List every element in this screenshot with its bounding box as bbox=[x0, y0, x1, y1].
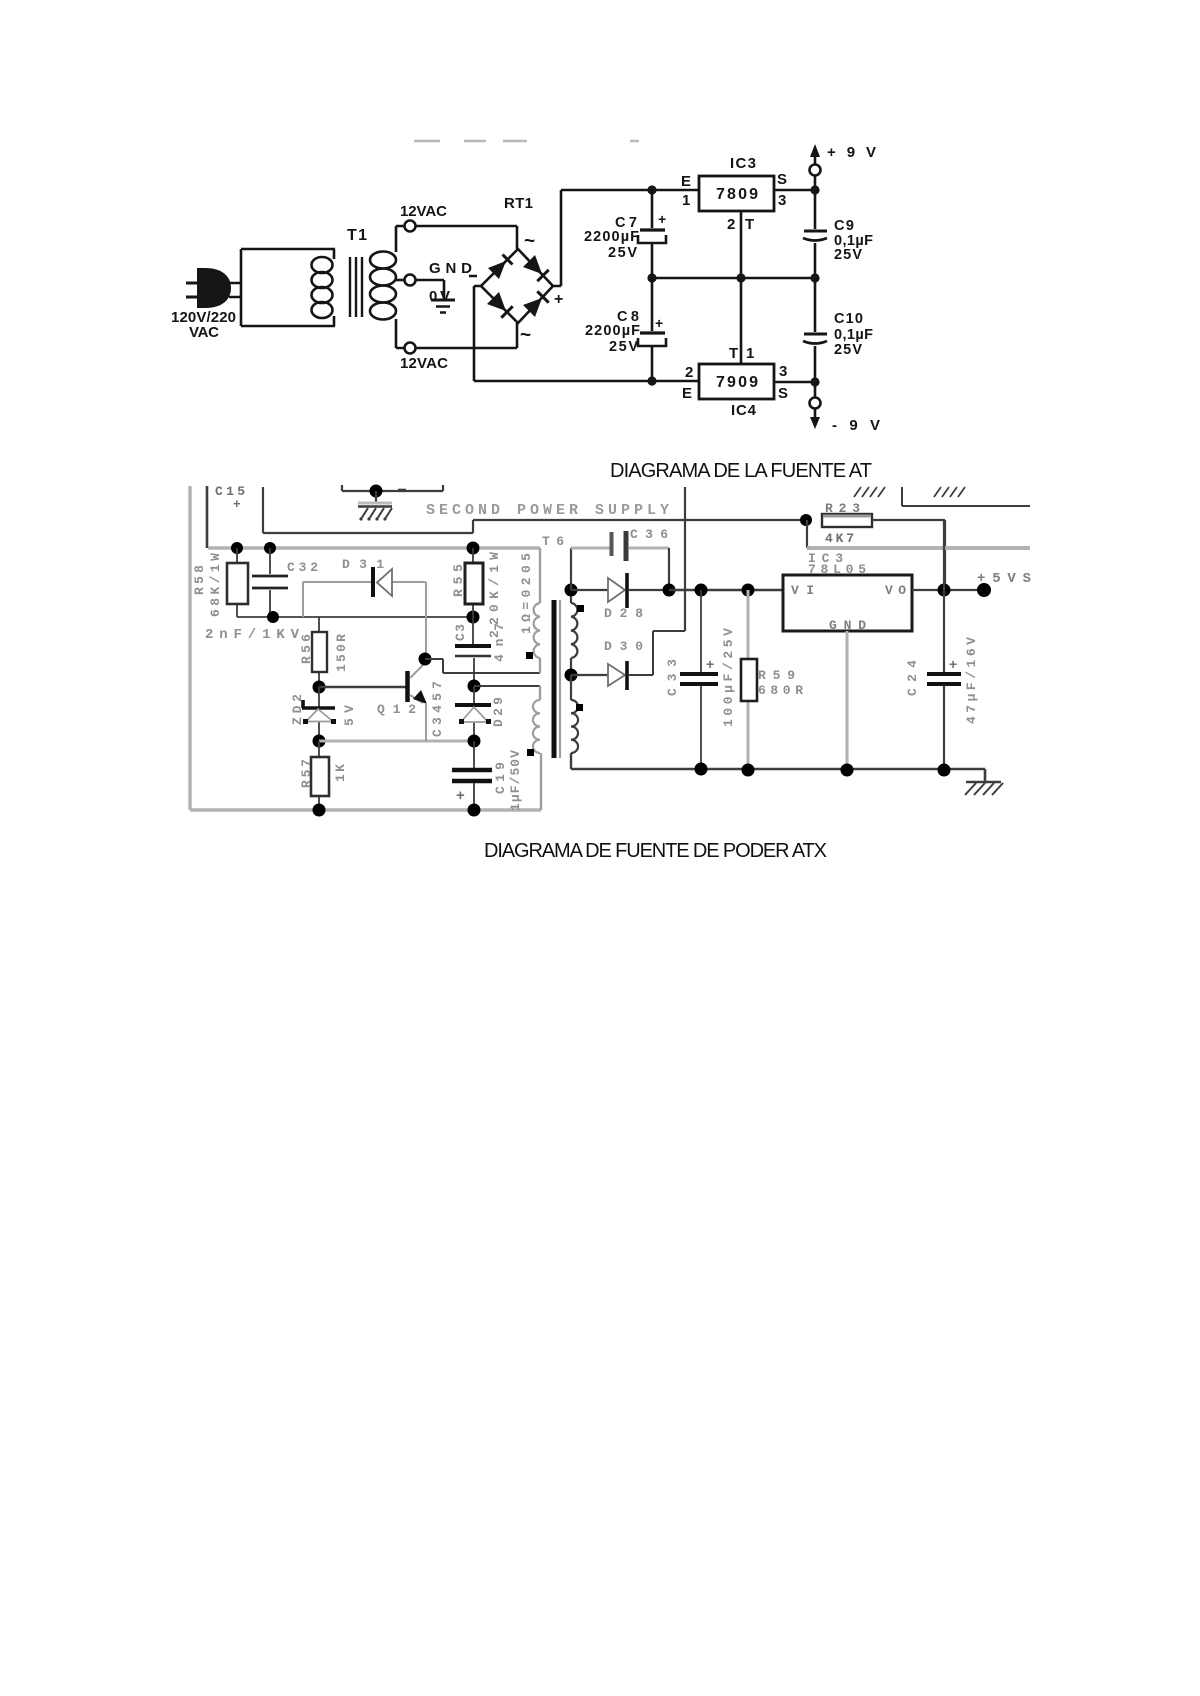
svg-text:~: ~ bbox=[520, 325, 531, 346]
svg-text:25V: 25V bbox=[834, 247, 862, 263]
svg-text:+: + bbox=[706, 656, 714, 672]
capacitor C19 bbox=[473, 741, 475, 810]
resistor R56 bbox=[318, 617, 320, 681]
wire R23 to +5V node bbox=[872, 520, 945, 590]
wire plug loop bbox=[241, 249, 335, 326]
diode D31 wires bbox=[303, 582, 426, 653]
bridge AC ~ marks and polarity bbox=[520, 231, 563, 346]
transformer T1 secondary winding bbox=[370, 252, 396, 320]
node dot Q12 collector bbox=[419, 653, 432, 666]
regulator IC3 78L05 box bbox=[783, 575, 912, 631]
node dot base/zener bbox=[313, 681, 326, 694]
T6 primary winding section 2 bbox=[533, 700, 540, 753]
+5V input rail y590 bbox=[669, 589, 783, 591]
node dot C33 top bbox=[695, 584, 708, 597]
svg-text:GND: GND bbox=[429, 260, 472, 277]
IC4 pin1 wire bbox=[740, 278, 743, 364]
svg-text:E: E bbox=[681, 173, 691, 190]
zener ZD2 bbox=[318, 687, 320, 741]
label C15 (clipped, rotated) bbox=[209, 472, 252, 511]
T6 primary wire top bbox=[539, 548, 541, 603]
svg-text:4K7: 4K7 bbox=[825, 531, 854, 546]
svg-text:C3: C3 bbox=[453, 624, 468, 641]
wire top-left vertical bbox=[262, 487, 264, 533]
capacitor C9 bbox=[814, 190, 817, 229]
wire bridge + to top rail bbox=[553, 190, 699, 286]
-9V output node bbox=[810, 377, 819, 386]
svg-text:D31: D31 bbox=[342, 557, 384, 572]
svg-text:25V: 25V bbox=[609, 339, 638, 355]
AC plug P1 bbox=[186, 268, 241, 308]
T6 phase dot primary bottom bbox=[527, 749, 534, 756]
wire step up to R23 rail bbox=[473, 520, 806, 533]
bridge rectifier RT1 bbox=[481, 249, 553, 323]
bridge diode bottom-right bbox=[523, 298, 542, 317]
svg-text:R56: R56 bbox=[299, 634, 314, 664]
wire bridge - down to bottom rail bbox=[474, 286, 699, 381]
base wire bbox=[319, 686, 406, 688]
svg-text:+: + bbox=[233, 496, 241, 511]
resistor R55 bbox=[472, 548, 474, 617]
cut hatch marks group 2 bbox=[934, 487, 965, 497]
svg-text:C32: C32 bbox=[287, 560, 318, 575]
T6 secondary bottom tap bbox=[571, 753, 700, 769]
svg-text:R58: R58 bbox=[192, 565, 207, 595]
capacitor C33 bbox=[700, 590, 702, 769]
secondary center tap 0V bbox=[396, 279, 404, 282]
svg-text:2: 2 bbox=[727, 216, 735, 233]
capacitor C24 column bbox=[943, 520, 945, 770]
svg-text:R23: R23 bbox=[825, 501, 860, 516]
svg-text:47µF/16V: 47µF/16V bbox=[964, 637, 979, 724]
svg-text:1Ω=0205: 1Ω=0205 bbox=[519, 553, 534, 634]
node dot C36/D28 bbox=[663, 584, 676, 597]
svg-text:100µF/25V: 100µF/25V bbox=[721, 628, 736, 727]
node dot zener bottom bbox=[313, 735, 326, 748]
transformer T1 primary winding bbox=[312, 249, 335, 326]
svg-text:IC3: IC3 bbox=[730, 155, 756, 172]
node dot R59 bottom bbox=[742, 764, 755, 777]
clipped capacitor C15 lead bbox=[206, 486, 209, 548]
svg-text:C10: C10 bbox=[834, 311, 863, 327]
svg-text:1µF/50V: 1µF/50V bbox=[508, 750, 523, 811]
T6 phase dot secondary bottom bbox=[576, 704, 583, 711]
svg-text:S: S bbox=[778, 385, 788, 402]
svg-text:12VAC: 12VAC bbox=[400, 203, 447, 220]
svg-text:0V: 0V bbox=[429, 288, 450, 305]
svg-text:25V: 25V bbox=[608, 245, 637, 261]
gray net right rail y548 bbox=[807, 546, 1030, 550]
svg-text:T: T bbox=[745, 216, 754, 233]
node dot C8 bottom bbox=[647, 376, 656, 385]
node dot C32 top bbox=[264, 542, 276, 554]
svg-text:T1: T1 bbox=[347, 227, 367, 244]
svg-text:+: + bbox=[949, 656, 957, 672]
svg-text:+: + bbox=[658, 211, 666, 227]
svg-text:7909: 7909 bbox=[716, 374, 758, 391]
svg-text:12VAC: 12VAC bbox=[400, 355, 448, 372]
T6 secondary winding section 2 bbox=[571, 675, 578, 753]
capacitor C3 bbox=[473, 617, 474, 686]
svg-text:+: + bbox=[554, 291, 563, 308]
collector wire to transformer tap bbox=[425, 659, 540, 673]
node dot C33 bottom bbox=[695, 763, 708, 776]
svg-text:4n7: 4n7 bbox=[492, 623, 507, 662]
resistor R57 bbox=[318, 741, 320, 811]
cut hatch marks group 1 bbox=[854, 487, 885, 497]
mid rail bbox=[652, 277, 815, 280]
svg-text:C19: C19 bbox=[493, 762, 508, 794]
svg-text:VAC: VAC bbox=[189, 324, 219, 341]
terminal circle bottom bbox=[405, 343, 416, 354]
svg-text:2: 2 bbox=[685, 364, 693, 381]
T6 core bbox=[552, 600, 557, 758]
node dot D29 bottom bbox=[468, 735, 481, 748]
svg-text:2nF/1KV: 2nF/1KV bbox=[205, 627, 300, 643]
node dot C3 bottom bbox=[468, 680, 481, 693]
svg-text:C9: C9 bbox=[834, 218, 854, 234]
T6 primary section joins bbox=[540, 658, 541, 810]
small clipped mark bbox=[398, 489, 406, 492]
svg-text:150R: 150R bbox=[334, 634, 349, 672]
T6 primary winding section 1 bbox=[534, 603, 540, 658]
svg-text:5V: 5V bbox=[342, 705, 357, 726]
svg-text:2200µF: 2200µF bbox=[585, 323, 640, 339]
IC4 output wire bbox=[774, 381, 815, 384]
svg-text:D30: D30 bbox=[604, 639, 643, 654]
transistor Q12 bbox=[405, 671, 410, 702]
top cut wire right bbox=[902, 487, 1030, 506]
scan artifact dashes bbox=[414, 140, 639, 142]
stub from R23 node down to gray net bbox=[806, 520, 808, 548]
svg-text:T6: T6 bbox=[542, 534, 564, 549]
svg-text:DIAGRAMA DE LA FUENTE AT: DIAGRAMA DE LA FUENTE AT bbox=[610, 460, 872, 482]
svg-text:RT1: RT1 bbox=[504, 195, 533, 212]
svg-text:Q12: Q12 bbox=[377, 702, 416, 717]
capacitor C32 bbox=[269, 548, 271, 617]
svg-text:GND: GND bbox=[829, 618, 866, 633]
svg-text:+ 9 V: + 9 V bbox=[827, 144, 876, 161]
svg-text:SECOND POWER SUPPLY: SECOND POWER SUPPLY bbox=[426, 502, 669, 519]
ground (hatched) bottom right bbox=[966, 769, 1001, 782]
svg-text:R59: R59 bbox=[758, 668, 795, 683]
node dot R58 top bbox=[231, 542, 243, 554]
svg-text:- 9 V: - 9 V bbox=[832, 417, 880, 434]
ground symbol bbox=[431, 299, 455, 302]
svg-text:R55: R55 bbox=[451, 564, 466, 597]
svg-text:7809: 7809 bbox=[716, 186, 758, 203]
diode D29 bbox=[473, 686, 475, 741]
wire drive tap y686 bbox=[474, 685, 540, 687]
T6 phase dot primary top bbox=[526, 652, 533, 659]
node dot GND pin bottom bbox=[841, 764, 854, 777]
capacitor C8 bbox=[651, 278, 654, 331]
svg-text:2200µF: 2200µF bbox=[584, 229, 639, 245]
diode D31 bbox=[377, 569, 392, 596]
svg-text:+: + bbox=[456, 787, 465, 804]
D30 output wire bbox=[629, 631, 685, 675]
svg-text:3: 3 bbox=[778, 192, 786, 209]
svg-text:C15: C15 bbox=[215, 484, 245, 499]
svg-text:C36: C36 bbox=[630, 527, 668, 542]
node dot C24 bottom bbox=[938, 764, 951, 777]
node dot C32 bottom bbox=[267, 611, 279, 623]
svg-text:0,1µF: 0,1µF bbox=[834, 327, 873, 343]
wire y617 net bbox=[237, 616, 473, 618]
IC3 pin2 wire bbox=[740, 211, 743, 278]
regulator IC4 7909 bbox=[699, 364, 774, 399]
resistor R58 bbox=[236, 548, 238, 617]
capacitor C10 bbox=[814, 278, 817, 332]
VO output wire bbox=[912, 589, 984, 591]
node dot VO/C24 bbox=[938, 584, 951, 597]
node dot C19 bottom bbox=[468, 804, 481, 817]
svg-text:680R: 680R bbox=[758, 683, 803, 698]
diode D28 bbox=[571, 589, 608, 591]
clipped vertical wire x685 bbox=[684, 487, 686, 631]
emitter rail gray y741 bbox=[319, 740, 474, 743]
terminal circle top bbox=[405, 221, 416, 232]
bridge diode top-right bbox=[523, 255, 542, 274]
ground (hatched) top bbox=[375, 491, 377, 504]
node dot R59 top bbox=[742, 584, 755, 597]
+5VS terminal dot bbox=[977, 583, 991, 597]
wire to bridge top bbox=[416, 226, 517, 249]
IC3 output wire bbox=[774, 189, 815, 192]
svg-text:ZD2: ZD2 bbox=[290, 694, 305, 725]
svg-text:E: E bbox=[682, 385, 692, 402]
node dot R57 bottom bbox=[313, 804, 326, 817]
+9V output node bbox=[810, 185, 819, 194]
svg-text:D28: D28 bbox=[604, 606, 643, 621]
T6 secondary mid tap bbox=[570, 658, 572, 675]
wire rail y533 bbox=[263, 532, 473, 534]
terminal circle center bbox=[405, 275, 416, 286]
svg-text:DIAGRAMA DE FUENTE DE PODER AT: DIAGRAMA DE FUENTE DE PODER ATX bbox=[484, 840, 827, 862]
node dot C7 top bbox=[647, 185, 656, 194]
svg-text:25V: 25V bbox=[834, 342, 862, 358]
secondary bottom tap wire 12VAC bbox=[396, 319, 404, 348]
T6 secondary top tap bbox=[565, 584, 578, 597]
bridge diode bottom-left bbox=[487, 292, 506, 311]
bridge diode top-left bbox=[488, 261, 506, 279]
svg-text:68K/1W: 68K/1W bbox=[208, 553, 223, 617]
regulator IC3 7809 bbox=[699, 176, 774, 211]
svg-text:T: T bbox=[729, 345, 738, 362]
T6 secondary winding section 1 bbox=[571, 596, 577, 658]
svg-text:1K: 1K bbox=[333, 764, 348, 782]
svg-text:3: 3 bbox=[779, 363, 787, 380]
svg-text:1: 1 bbox=[682, 192, 690, 209]
node dot R55 top bbox=[467, 542, 480, 555]
bottom right rail (secondary return) bbox=[700, 768, 985, 771]
svg-text:~: ~ bbox=[524, 231, 535, 252]
GND pin wire bbox=[846, 631, 849, 770]
svg-text:C24: C24 bbox=[905, 660, 920, 696]
svg-text:+: + bbox=[655, 315, 663, 331]
svg-text:S: S bbox=[777, 171, 787, 188]
svg-text:D29: D29 bbox=[491, 697, 506, 727]
node dots mid rail bbox=[647, 273, 656, 282]
node dot R23 input bbox=[800, 514, 812, 526]
svg-text:IC4: IC4 bbox=[731, 402, 757, 419]
transformer T1 core bbox=[350, 257, 362, 317]
resistor R23 (horizontal) bbox=[822, 514, 872, 527]
gray net left rail y548 bbox=[208, 546, 540, 549]
svg-text:R57: R57 bbox=[299, 759, 314, 788]
T6 phase dot secondary top bbox=[577, 605, 584, 612]
diode D30 bbox=[571, 674, 608, 676]
svg-text:C33: C33 bbox=[665, 659, 680, 696]
label 120V/220 VAC bbox=[171, 309, 236, 341]
svg-text:+5VS: +5VS bbox=[977, 571, 1031, 587]
node dot top ground bbox=[370, 485, 383, 498]
bottom left rail (primary return) bbox=[190, 808, 541, 811]
capacitor C7 bbox=[651, 190, 654, 228]
secondary top tap wire 12VAC bbox=[396, 226, 404, 252]
node dot R55 bottom bbox=[467, 611, 480, 624]
capacitor C36 bbox=[610, 532, 614, 556]
svg-text:C3457: C3457 bbox=[430, 681, 445, 737]
left border wire bbox=[188, 486, 191, 810]
svg-text:1: 1 bbox=[746, 345, 754, 362]
top ground rail stub bbox=[342, 485, 443, 491]
resistor R59 bbox=[747, 590, 750, 770]
